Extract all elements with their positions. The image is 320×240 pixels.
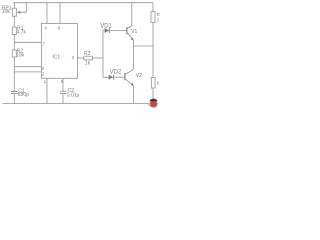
potentiometer RP1 body — [12, 8, 16, 16]
svg-text:10k: 10k — [2, 9, 11, 15]
potentiometer RP1 wiper arrowhead — [17, 11, 21, 14]
svg-text:5: 5 — [61, 79, 64, 84]
transistor V2 emitter — [125, 79, 133, 104]
transistor V2 emitter arrowhead — [131, 83, 134, 86]
svg-text:7: 7 — [42, 42, 45, 47]
wire node to R5 — [152, 46, 154, 78]
watermark stamp red inner — [151, 102, 157, 107]
wire RP1 top lead — [13, 3, 15, 9]
wire pin6 — [14, 66, 41, 68]
diode VD2 symbol — [109, 75, 114, 80]
resistor R2 body — [12, 50, 16, 57]
svg-text:R3: R3 — [84, 51, 91, 57]
svg-text:680p: 680p — [18, 92, 29, 98]
svg-text:VD1: VD1 — [100, 24, 112, 30]
svg-text:1k: 1k — [85, 61, 91, 67]
svg-text:18k: 18k — [16, 53, 25, 59]
wire pin4 — [46, 3, 48, 24]
diode VD1 symbol — [105, 28, 110, 33]
transistor V2 collector — [125, 69, 133, 74]
svg-text:4.7k: 4.7k — [17, 30, 27, 36]
svg-text:V2: V2 — [136, 73, 142, 79]
transistor V1 emitter — [127, 33, 133, 46]
wire RP1 to R1 — [13, 16, 15, 27]
wire diode branch vertical — [102, 31, 104, 78]
wire pin8 — [59, 3, 61, 24]
transistor V1 base bar — [126, 27, 128, 34]
wire pin3 to R3 — [77, 57, 83, 59]
resistor R1 body — [12, 27, 16, 35]
svg-text:3: 3 — [72, 55, 75, 60]
wire R3 to diode node — [92, 57, 103, 59]
svg-text:6: 6 — [42, 66, 45, 71]
svg-text:0.01μ: 0.01μ — [67, 93, 80, 99]
wire R5 to ground — [152, 88, 154, 104]
op-amp IC1 box — [41, 24, 77, 79]
wire VD1 anode — [103, 30, 105, 32]
resistor R5 body (right edge, bottom) — [151, 78, 155, 88]
wire C2 to ground — [62, 93, 64, 103]
watermark stamp dark cap — [150, 99, 158, 102]
svg-text:5: 5 — [157, 81, 160, 86]
wire pin1 to ground — [46, 78, 48, 103]
svg-text:4: 4 — [44, 25, 47, 30]
capacitor C2 plates — [60, 91, 66, 93]
wire R1 to R2 — [13, 35, 15, 51]
svg-text:IC1: IC1 — [52, 55, 60, 61]
wire pin5 to C2 — [62, 78, 64, 91]
svg-text:2: 2 — [157, 17, 160, 22]
wire VD1 cathode to V1 base — [109, 30, 126, 32]
svg-text:R: R — [157, 12, 160, 17]
resistor R3 body — [84, 56, 93, 60]
wire pin7 — [14, 41, 41, 43]
wire C1 to ground — [13, 94, 15, 104]
svg-text:2: 2 — [42, 72, 45, 77]
svg-text:1: 1 — [44, 79, 47, 84]
wire top supply rail — [13, 2, 153, 4]
watermark stamp red body — [150, 101, 158, 108]
resistor R4 body (right edge, top) — [151, 12, 155, 23]
svg-text:8: 8 — [58, 25, 61, 30]
wire node to V2 collector — [133, 46, 135, 70]
wire bottom ground rail — [3, 103, 159, 105]
wire VD2 cathode to V2 base — [114, 76, 125, 78]
transistor V1 emitter arrowhead — [131, 38, 134, 41]
wire R4 to node — [152, 23, 154, 47]
wire emitter node to right column — [134, 45, 154, 47]
transistor V2 base bar — [124, 73, 126, 80]
wire pin2 — [14, 71, 41, 73]
svg-text:VD2: VD2 — [110, 69, 122, 75]
svg-text:V1: V1 — [131, 29, 137, 35]
capacitor C1 plates — [11, 92, 18, 94]
wire right column top — [152, 3, 154, 12]
wire VD2 anode — [103, 76, 109, 78]
transistor V1 collector — [127, 3, 132, 29]
wire R2 to C1 — [13, 57, 15, 91]
potentiometer RP1 wiper — [18, 3, 26, 13]
watermark stamp pink fringe — [148, 103, 150, 106]
